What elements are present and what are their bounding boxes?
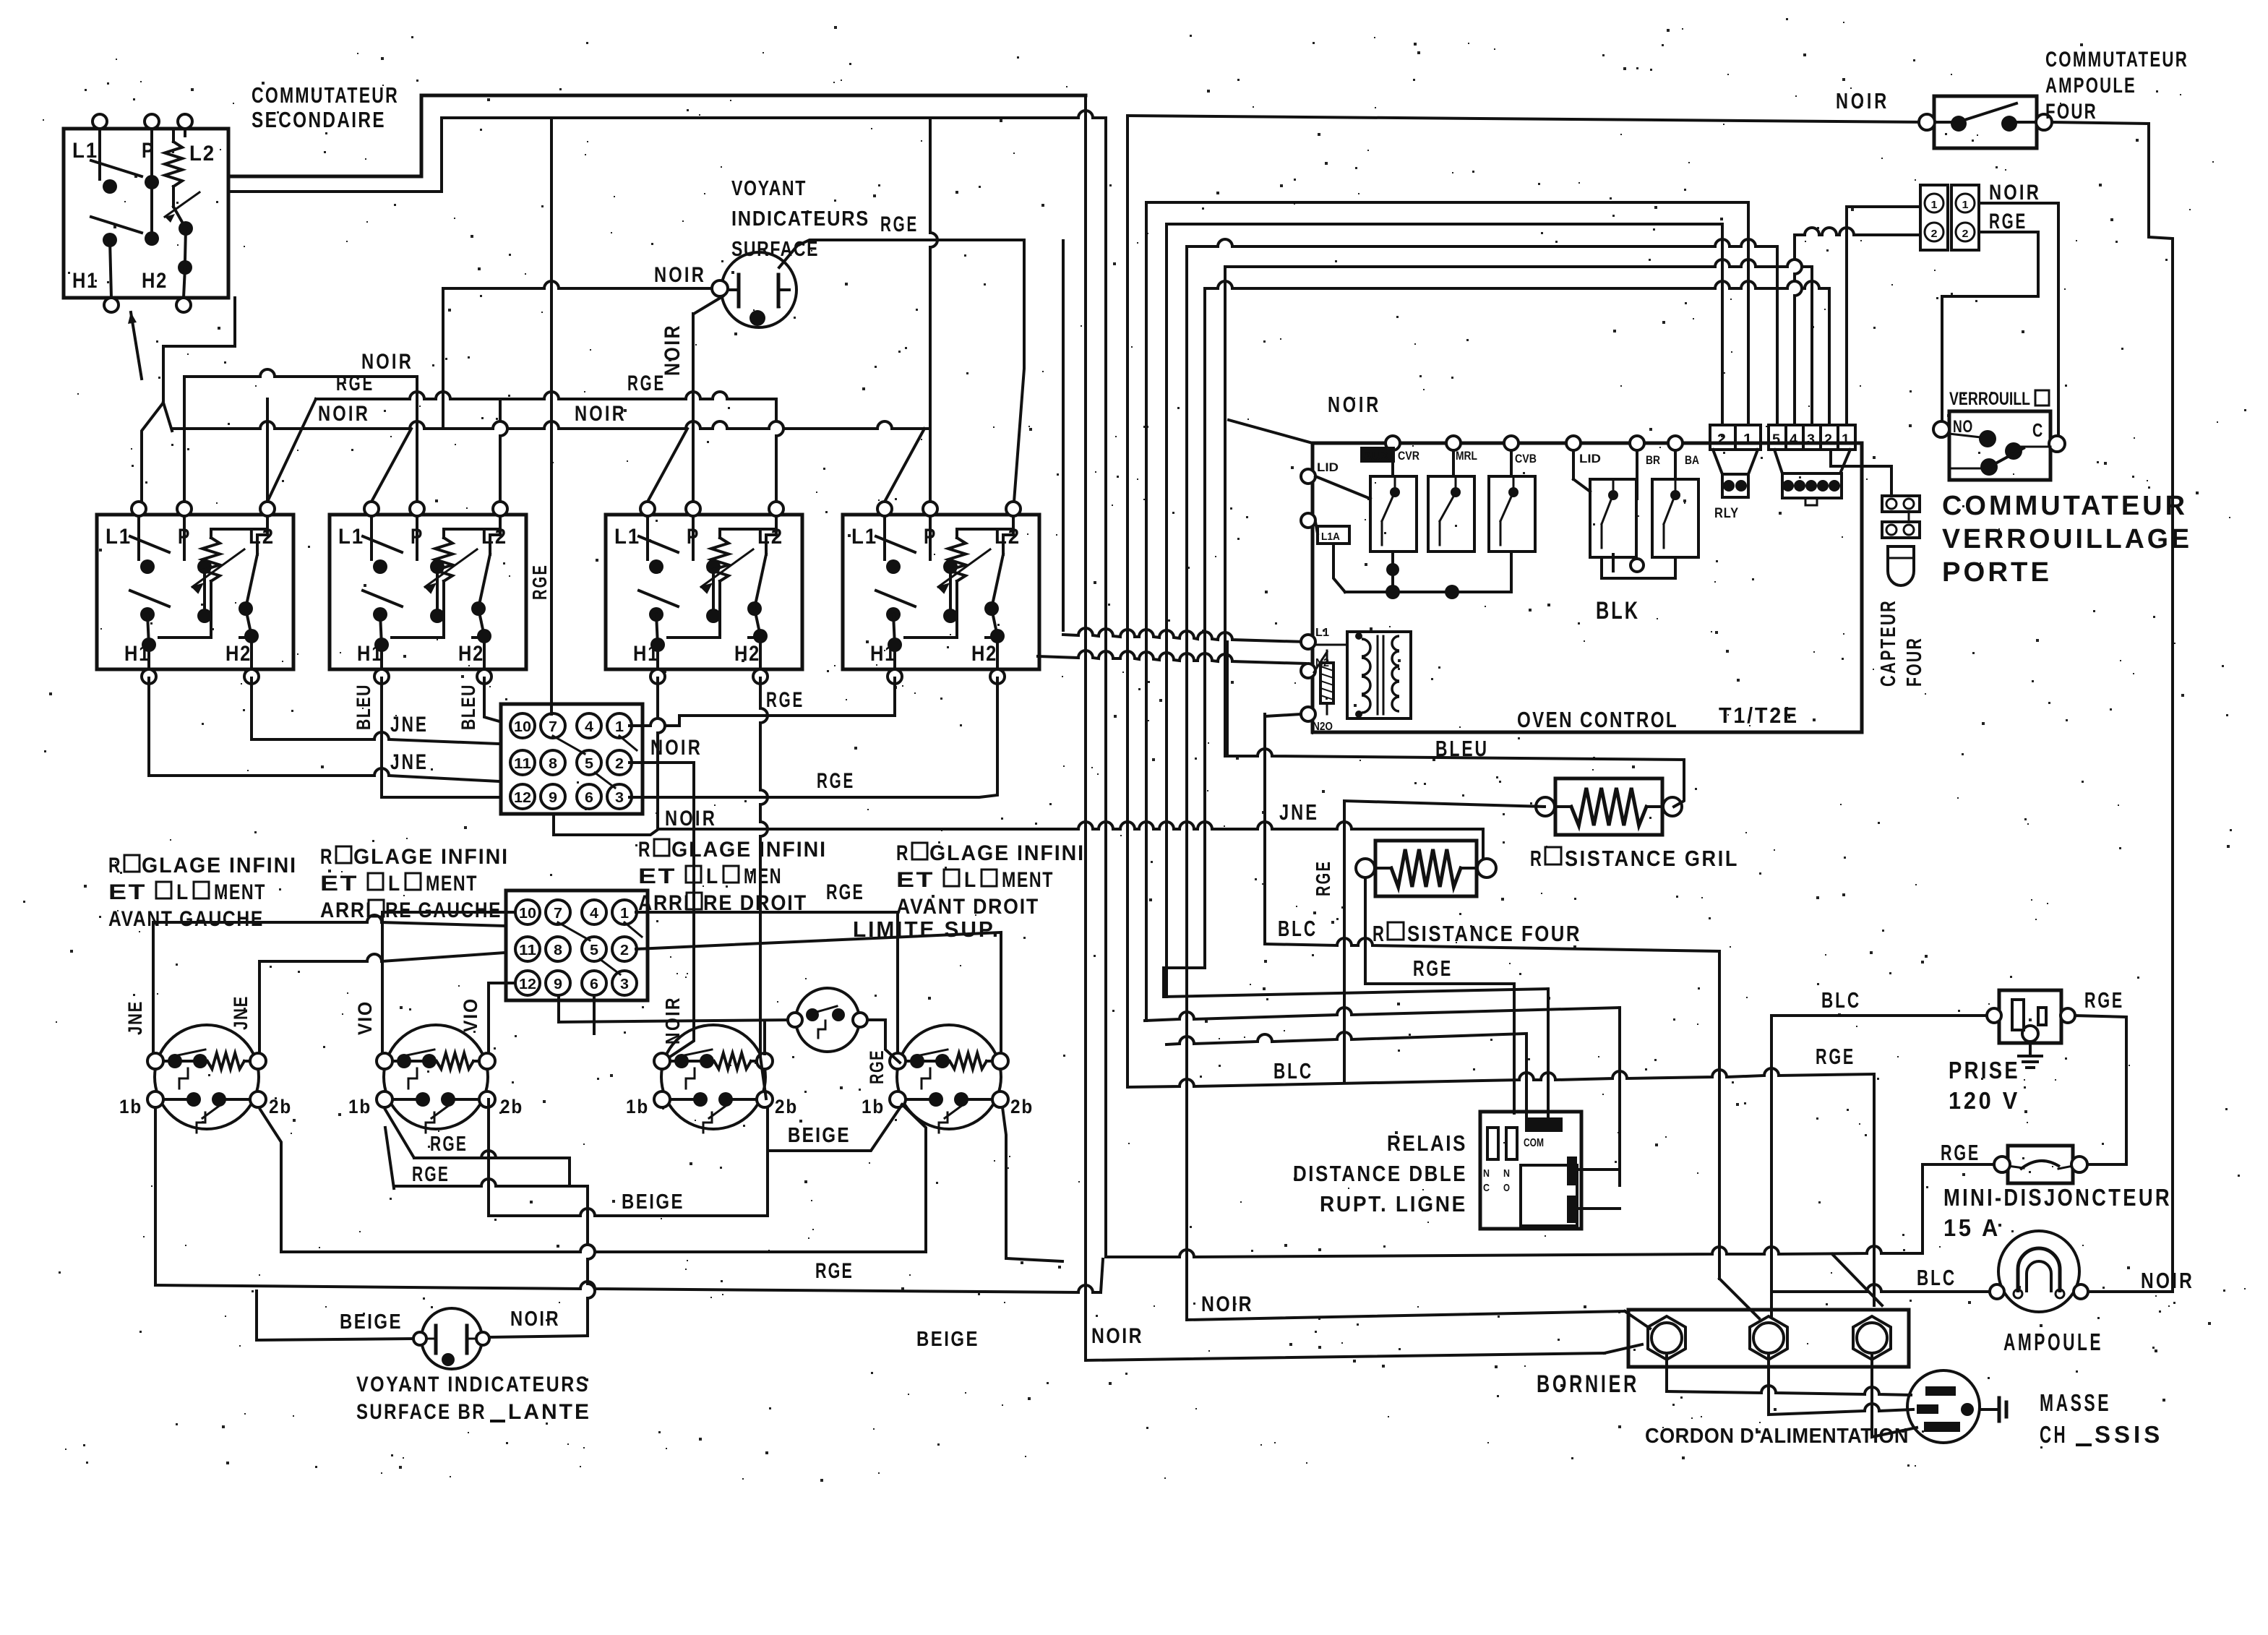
svg-text:GLAGE INFINI: GLAGE INFINI: [929, 841, 1085, 865]
oven sensor resistor: [1320, 663, 1333, 703]
wire run to relay left: [1167, 1032, 1526, 1044]
svg-text:1: 1: [1962, 199, 1969, 211]
svg-text:GLAGE INFINI: GLAGE INFINI: [671, 838, 827, 862]
svg-text:RGE: RGE: [1989, 210, 2027, 233]
svg-text:L1: L1: [851, 525, 877, 549]
svg-text:N2O: N2O: [1313, 721, 1333, 733]
oven left terminal L1: [1301, 635, 1315, 649]
svg-text:2: 2: [1931, 228, 1938, 240]
wire NOIR run x1502: [1086, 1353, 1605, 1360]
wire RGE bus to box3-L2: [776, 399, 783, 502]
wire RGE2 run: [385, 1128, 394, 1188]
svg-text:RUPT. LIGNE: RUPT. LIGNE: [1320, 1191, 1467, 1216]
wire 5pin to capteur: [1831, 450, 1891, 496]
wire BLC run2 to nut3: [1127, 1068, 1874, 1087]
wire BLC run1: [1265, 938, 1719, 951]
switch C3 reglage infini arriere droit: [661, 1025, 765, 1129]
oven relay riser wires: [1391, 450, 1394, 476]
svg-text:H1: H1: [72, 269, 98, 293]
wire long run C1-C4: [281, 1245, 926, 1252]
oven transformer T1: [1347, 632, 1411, 718]
wire N2O to BLC corner: [1265, 714, 1301, 716]
svg-text:BLEU: BLEU: [353, 684, 374, 730]
svg-text:9: 9: [549, 790, 557, 806]
svg-text:BEIGE: BEIGE: [788, 1124, 851, 1147]
svg-text:VOYANT INDICATEURS: VOYANT INDICATEURS: [356, 1373, 590, 1396]
svg-text:LID: LID: [1317, 460, 1339, 474]
wire diag NOIR2 to box2-L1: [371, 429, 411, 502]
svg-text:BEIGE: BEIGE: [622, 1190, 684, 1214]
oven relay K3: [1489, 476, 1535, 552]
svg-text:FOUR: FOUR: [2045, 100, 2097, 124]
svg-text:BLC: BLC: [1821, 987, 1861, 1013]
svg-text:ET: ET: [320, 872, 358, 896]
wire J1 bottom to JNE run: [554, 814, 658, 835]
nested corner wires to RLY and 5-pin: [1146, 202, 1748, 425]
svg-text:L1A: L1A: [1321, 531, 1340, 543]
wire vertical x1667 JNE feed: [1203, 288, 1206, 968]
svg-text:H2: H2: [458, 642, 484, 666]
svg-text:MINI-DISJONCTEUR: MINI-DISJONCTEUR: [1943, 1184, 2172, 1211]
svg-text:4: 4: [1790, 432, 1797, 447]
wire 5pin pin4 riser to block: [1795, 228, 1917, 235]
svg-text:COM: COM: [1524, 1137, 1544, 1149]
wire C2 2b down: [487, 1099, 490, 1216]
wire C2 1b RGE1: [385, 1110, 570, 1184]
svg-text:SECONDAIRE: SECONDAIRE: [252, 107, 386, 132]
wire C3 2b beige riser: [766, 1107, 769, 1216]
svg-text:T1/T2E: T1/T2E: [1719, 703, 1799, 728]
wire four top loop: [1358, 829, 1483, 857]
svg-text:CAPTEUR: CAPTEUR: [1877, 599, 1900, 687]
svg-text:1b: 1b: [626, 1096, 649, 1117]
oven relay K5: [1652, 479, 1698, 557]
svg-text:OVEN CONTROL: OVEN CONTROL: [1517, 707, 1678, 732]
svg-text:NOIR: NOIR: [510, 1308, 560, 1331]
svg-text:VIO: VIO: [460, 997, 481, 1032]
wire NOIR ampoule right: [2088, 1290, 2173, 1293]
wire lamp top-right to RGE riser: [779, 240, 1024, 267]
svg-text:2b: 2b: [500, 1096, 523, 1117]
svg-text:C: C: [1483, 1182, 1490, 1194]
wire riser x1286 to box4-P: [930, 118, 937, 502]
wire NOIR slope into oven control: [1229, 420, 1313, 443]
outlet prise 120V: [1999, 990, 2061, 1043]
svg-text:MEN: MEN: [744, 864, 782, 888]
svg-text:9: 9: [554, 977, 562, 992]
svg-text:COMMUTATEUR: COMMUTATEUR: [1942, 491, 2188, 521]
svg-text:1: 1: [620, 906, 629, 922]
oven L1A terminal: [1301, 513, 1315, 528]
wire S0 to top NOIR run: [228, 95, 1086, 176]
svg-text:6: 6: [590, 977, 598, 992]
svg-text:NOIR: NOIR: [575, 402, 627, 426]
bus RGE: [316, 392, 776, 399]
svg-text:CVB: CVB: [1515, 452, 1537, 465]
svg-text:LIMITE SUP.: LIMITE SUP.: [853, 917, 1000, 942]
svg-text:RGE: RGE: [817, 769, 855, 793]
wire bus NOIR1 to P2: [416, 377, 418, 502]
wire oven N feed: [1038, 651, 1305, 664]
svg-text:MENT: MENT: [214, 880, 266, 904]
svg-text:7: 7: [554, 906, 562, 922]
svg-text:JNE: JNE: [390, 750, 429, 774]
wire C1 1b down to RGE run: [154, 1110, 157, 1285]
sensor capteur four bulb: [1888, 546, 1914, 585]
lamp DS2 voyant surface brulante: [421, 1308, 482, 1369]
svg-text:4: 4: [585, 719, 594, 735]
svg-text:AMPOULE: AMPOULE: [2003, 1329, 2103, 1355]
svg-text:NOIR: NOIR: [1328, 392, 1381, 417]
svg-text:L: L: [706, 864, 719, 888]
wire diag NOIR2 to box3-L1: [648, 429, 687, 502]
svg-text:6: 6: [585, 790, 593, 806]
wire relay contacts to vertical: [1577, 1168, 1620, 1171]
svg-text:BLK: BLK: [1596, 597, 1640, 625]
wire C3 TR riser to limite wire: [763, 1022, 766, 1054]
connector pair 1-2 right: [1951, 185, 1979, 250]
svg-text:RE GAUCHE: RE GAUCHE: [385, 898, 502, 922]
svg-text:SISTANCE GRIL: SISTANCE GRIL: [1565, 846, 1739, 871]
lamp DS1 voyant indicateurs surface: [721, 252, 796, 327]
wire oven L1 feed: [1062, 241, 1065, 630]
svg-text:NOIR: NOIR: [318, 402, 370, 426]
wire four left down to RGE: [1365, 877, 1514, 1113]
wire J2 pin1 to C4 TL: [636, 912, 898, 1053]
svg-text:LID: LID: [1579, 452, 1601, 465]
svg-text:NOIR: NOIR: [650, 736, 703, 760]
svg-text:12: 12: [519, 977, 536, 992]
svg-text:RGE: RGE: [1941, 1140, 1980, 1165]
svg-text:RGE: RGE: [826, 880, 864, 904]
wire vertical V1 x1502 NOIR: [1084, 95, 1087, 1360]
svg-text:MENT: MENT: [1002, 868, 1054, 892]
svg-text:JNE: JNE: [124, 1000, 146, 1035]
breaker mini-disjoncteur: [2008, 1146, 2073, 1183]
wire plug to masse: [1980, 1408, 1996, 1411]
svg-text:L1: L1: [338, 525, 364, 549]
wire RGE bus to box2-L2: [500, 399, 507, 502]
svg-text:11: 11: [519, 943, 536, 958]
wire box3-H1 riser: [658, 678, 665, 829]
wire C4 2b down: [1002, 1107, 1062, 1261]
svg-text:RGE: RGE: [336, 372, 374, 395]
svg-text:RGE: RGE: [1816, 1044, 1855, 1069]
svg-text:INDICATEURS: INDICATEURS: [731, 207, 869, 231]
svg-text:11: 11: [514, 756, 531, 772]
oven LID terminal: [1301, 469, 1315, 484]
svg-text:SSIS: SSIS: [2095, 1421, 2163, 1448]
wire diag box1-L2 to RGE bus: [267, 399, 316, 502]
svg-text:ET: ET: [896, 868, 935, 892]
svg-text:10: 10: [514, 719, 531, 735]
switch C2 reglage infini arriere gauche: [384, 1025, 488, 1129]
svg-text:3: 3: [615, 790, 624, 806]
wire BEIGE C2-C3: [489, 1209, 765, 1216]
svg-text:CORDON D'ALIMENTATION: CORDON D'ALIMENTATION: [1645, 1425, 1909, 1448]
wire vertical x1695 BLEU feed: [1224, 267, 1227, 756]
wire J1 pin1 to box4-H1 RGE: [630, 678, 895, 726]
svg-text:12: 12: [514, 790, 531, 806]
wire JNE run to four loop: [658, 822, 1358, 829]
switch S7 limite sup: [796, 988, 859, 1052]
wire NOIR run x1642: [1187, 1311, 1625, 1320]
svg-text:15 A: 15 A: [1943, 1214, 2001, 1241]
wire bornier nut1 down: [1665, 1353, 1668, 1391]
oven relay K4: [1590, 479, 1636, 557]
svg-text:VERROUILL: VERROUILL: [1949, 389, 2030, 409]
svg-text:JNE: JNE: [1279, 799, 1319, 825]
svg-text:GLAGE INFINI: GLAGE INFINI: [353, 845, 509, 869]
svg-text:RGE: RGE: [412, 1163, 450, 1186]
wire prise RGE to mini-disjoncteur: [2075, 1016, 2126, 1164]
svg-text:ET: ET: [638, 864, 676, 888]
wire bornier nut2 diag: [1719, 1279, 1759, 1318]
svg-text:1: 1: [615, 719, 624, 735]
svg-text:N: N: [1483, 1167, 1490, 1180]
svg-text:5: 5: [585, 756, 593, 772]
wire box1-H1 JNE to J1: [149, 678, 499, 781]
svg-text:H2: H2: [225, 642, 252, 666]
svg-text:L: L: [388, 872, 401, 896]
svg-text:BEIGE: BEIGE: [340, 1310, 403, 1334]
svg-text:JNE: JNE: [230, 995, 252, 1030]
svg-text:CVR: CVR: [1398, 449, 1419, 463]
wire VIO1 pin10 to C2: [382, 912, 515, 1053]
svg-text:R: R: [108, 854, 121, 877]
connector J2 12-pin block: [506, 891, 648, 1000]
terminal strip bornier: [1628, 1310, 1909, 1367]
switch S4 surface unit 4: [843, 515, 1039, 669]
svg-text:3: 3: [620, 977, 629, 992]
wire diag NOIR2 to box4-L1: [885, 429, 924, 502]
wire J2 pin10 JNE1 to C1: [153, 915, 504, 926]
wire J1 pin2 NOIR to C3 riser: [630, 763, 694, 1061]
svg-text:2: 2: [615, 756, 624, 772]
wire bornier nut2 down: [1767, 1353, 1770, 1415]
svg-text:FOUR: FOUR: [1903, 637, 1926, 687]
svg-text:RGE: RGE: [815, 1259, 854, 1283]
svg-text:COMMUTATEUR: COMMUTATEUR: [252, 82, 399, 108]
svg-text:SURFACE BR: SURFACE BR: [356, 1400, 486, 1424]
relay K6 relais distance: [1480, 1112, 1581, 1229]
svg-text:2b: 2b: [775, 1096, 798, 1117]
svg-text:7: 7: [549, 719, 557, 735]
svg-text:BLC: BLC: [1278, 916, 1318, 941]
svg-text:BLEU: BLEU: [458, 684, 479, 730]
wire box2-H1 BLEU to J1 pin12: [382, 678, 499, 797]
svg-text:1: 1: [1842, 432, 1850, 447]
svg-text:RGE: RGE: [866, 1050, 888, 1084]
wire C1 2b diag down: [260, 1110, 281, 1252]
svg-text:RGE: RGE: [1312, 860, 1334, 896]
svg-text:PRISE: PRISE: [1949, 1057, 2020, 1083]
switch S0 commutateur secondaire: [64, 129, 228, 298]
oven relay K1: [1370, 476, 1417, 552]
svg-text:VIO: VIO: [354, 1000, 376, 1035]
wire C4 1b beige diag: [770, 1106, 901, 1151]
svg-text:RLY: RLY: [1714, 506, 1739, 521]
resistor R2 resistance four: [1375, 841, 1477, 896]
svg-text:2: 2: [620, 943, 629, 958]
wire RGE run to mini-disjoncteur: [1106, 1246, 1923, 1257]
svg-text:RGE: RGE: [2084, 987, 2124, 1013]
svg-text:RGE: RGE: [430, 1133, 468, 1156]
oven relay lower bus: [1386, 563, 1399, 576]
svg-text:2: 2: [1962, 228, 1969, 240]
svg-text:R: R: [896, 841, 909, 865]
svg-text:RGE: RGE: [1413, 956, 1453, 981]
svg-text:2b: 2b: [1010, 1096, 1034, 1117]
wire lamp left to NOIR2: [443, 281, 712, 288]
svg-text:R: R: [638, 838, 651, 862]
wire lamp2 right: [489, 1336, 588, 1337]
wire S0 down-jog to NOIR2 bus: [142, 298, 235, 500]
svg-text:R: R: [1373, 921, 1386, 946]
svg-text:2: 2: [1717, 432, 1726, 447]
svg-text:MRL: MRL: [1456, 449, 1477, 463]
svg-text:MENT: MENT: [426, 872, 478, 896]
connector capteur four pins: [1882, 496, 1920, 512]
wire vertical V2 x1530 RGE: [1104, 118, 1107, 1257]
switch S1 surface unit 1: [97, 515, 293, 669]
svg-text:RGE: RGE: [880, 213, 919, 236]
svg-text:1b: 1b: [862, 1096, 885, 1117]
switch S3 surface unit 3: [606, 515, 802, 669]
svg-text:L1: L1: [1315, 627, 1329, 639]
svg-text:O: O: [1503, 1182, 1510, 1194]
arrow to S0: [131, 312, 142, 379]
wire gril left to RGE riser: [1344, 801, 1545, 1081]
wire riser x763 to pin7: [550, 118, 553, 714]
svg-text:L2: L2: [189, 142, 215, 166]
svg-text:SISTANCE FOUR: SISTANCE FOUR: [1407, 921, 1581, 946]
svg-text:BLC: BLC: [1917, 1265, 1956, 1290]
svg-text:C: C: [2032, 419, 2043, 441]
label AUX: [1360, 447, 1395, 463]
oven BLK relay wires: [1602, 557, 1675, 578]
wire NOIR block to door switch: [1979, 203, 2058, 444]
svg-text:10: 10: [519, 906, 536, 922]
wire J2 row2 JNE2 to C1: [259, 953, 504, 961]
switch C1 reglage infini avant gauche: [155, 1025, 259, 1129]
connector RLY 2-pin: [1710, 425, 1761, 450]
wire RGE block to door switch: [1942, 232, 2038, 429]
wire BLC to prise: [1771, 1014, 1987, 1017]
svg-text:GLAGE INFINI: GLAGE INFINI: [142, 854, 297, 877]
svg-text:NOIR: NOIR: [661, 324, 684, 376]
resistor R1 resistance gril: [1555, 778, 1662, 835]
wire vertical V3 x1560: [1126, 116, 1129, 1087]
svg-text:3: 3: [1807, 432, 1815, 447]
wire 5pin pin1 riser to block: [1847, 207, 1917, 425]
plug cordon alimentation: [1907, 1370, 1980, 1443]
svg-text:BEIGE: BEIGE: [916, 1328, 979, 1351]
svg-text:NOIR: NOIR: [654, 263, 706, 287]
wire box2-H2 BLEU to J1 pin10: [484, 678, 499, 721]
wire bus NOIR1 to P1: [183, 377, 186, 502]
svg-text:L: L: [176, 880, 189, 904]
wire bornier nut3 down: [1872, 1353, 1917, 1437]
switch S6 verrouillage porte: [1949, 411, 2050, 480]
svg-text:L1: L1: [614, 525, 640, 549]
wire x813 to lamp NOIR: [588, 1186, 595, 1334]
svg-text:LANTE: LANTE: [508, 1400, 591, 1424]
svg-text:NOIR: NOIR: [1201, 1292, 1253, 1316]
svg-text:AVANT GAUCHE: AVANT GAUCHE: [108, 907, 264, 931]
wire run to COM: [1164, 989, 1548, 997]
svg-text:5: 5: [1772, 432, 1780, 447]
svg-text:BA: BA: [1685, 453, 1699, 467]
wire long RGE run lower: [155, 1282, 1101, 1292]
wire VIO2 pin12 to C2: [489, 983, 515, 1053]
wire J1 pin3 RGE to box4-H2: [630, 678, 997, 797]
svg-text:PORTE: PORTE: [1942, 557, 2052, 588]
bus NOIR1 P1-P2: [184, 369, 417, 377]
svg-text:NOIR: NOIR: [1836, 88, 1889, 113]
svg-text:ARRI: ARRI: [320, 898, 372, 922]
lamp ampoule: [1998, 1231, 2079, 1312]
svg-text:1: 1: [1931, 199, 1938, 211]
wire box1-H2 JNE to J1: [252, 678, 499, 744]
svg-text:120 V: 120 V: [1949, 1087, 2020, 1114]
oven relay K2: [1428, 476, 1474, 552]
switch C4 reglage infini avant droit: [897, 1025, 1001, 1129]
svg-text:R: R: [320, 845, 333, 869]
svg-text:AMPOULE: AMPOULE: [2045, 74, 2136, 98]
svg-text:DISTANCE DBLE: DISTANCE DBLE: [1293, 1161, 1467, 1186]
oven top terminals: [1386, 436, 1400, 450]
svg-text:AUX: AUX: [1363, 449, 1390, 463]
wire BLC ampoule left: [1774, 1284, 1990, 1292]
svg-text:1b: 1b: [119, 1096, 142, 1117]
wire box3-H2 down to C3: [760, 678, 768, 1057]
connector J1 12-pin block: [501, 704, 643, 814]
svg-text:1b: 1b: [348, 1096, 371, 1117]
svg-text:NOIR: NOIR: [2141, 1268, 2194, 1293]
svg-text:2: 2: [1824, 432, 1832, 447]
svg-text:CH: CH: [2040, 1421, 2068, 1448]
svg-text:VERROUILLAGE: VERROUILLAGE: [1942, 524, 2192, 554]
svg-text:H2: H2: [142, 269, 168, 293]
svg-text:RGE: RGE: [766, 688, 804, 712]
svg-text:JNE: JNE: [390, 713, 429, 737]
svg-text:2b: 2b: [269, 1096, 292, 1117]
svg-text:MASSE: MASSE: [2040, 1389, 2111, 1416]
svg-text:RELAIS: RELAIS: [1387, 1130, 1467, 1156]
svg-text:L1: L1: [72, 139, 98, 163]
connector pair 1-2 left: [1920, 185, 1948, 250]
wire BLEU to gril right: [1227, 749, 1684, 807]
wire S0 second run: [442, 111, 1106, 118]
svg-text:ET: ET: [108, 880, 147, 904]
svg-text:BORNIER: BORNIER: [1537, 1370, 1639, 1398]
wire J2 pin9 to limite sup: [559, 996, 792, 1022]
connector CN5 5-pin: [1769, 425, 1855, 450]
svg-text:R: R: [1530, 846, 1543, 871]
oven left terminal N2O: [1301, 707, 1315, 721]
wire limite to C4: [867, 1020, 900, 1063]
svg-text:NOIR: NOIR: [665, 807, 717, 831]
svg-text:VOYANT: VOYANT: [731, 177, 807, 200]
wire lamp2 left: [257, 1291, 413, 1340]
wire lamp switch to right vertical: [2052, 122, 2173, 1292]
svg-text:8: 8: [554, 943, 562, 958]
svg-text:BR: BR: [1646, 453, 1660, 467]
wire J2 pin6 stub: [593, 996, 596, 1034]
svg-text:4: 4: [590, 906, 599, 922]
wire run to relay right: [1145, 1008, 1620, 1021]
